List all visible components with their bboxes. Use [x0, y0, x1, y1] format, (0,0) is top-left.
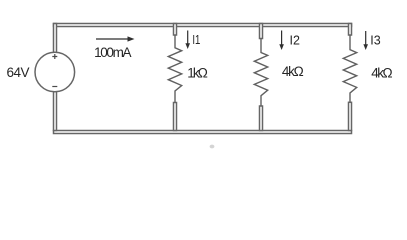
svg-text:4kΩ: 4kΩ: [282, 64, 304, 79]
svg-text:I2: I2: [290, 33, 300, 47]
svg-text:1kΩ: 1kΩ: [187, 66, 208, 81]
svg-text:I1: I1: [192, 33, 200, 47]
svg-text:100mA: 100mA: [94, 45, 131, 60]
svg-text:64V: 64V: [7, 65, 30, 80]
svg-text:4kΩ: 4kΩ: [371, 66, 392, 81]
svg-text:I3: I3: [370, 33, 380, 47]
